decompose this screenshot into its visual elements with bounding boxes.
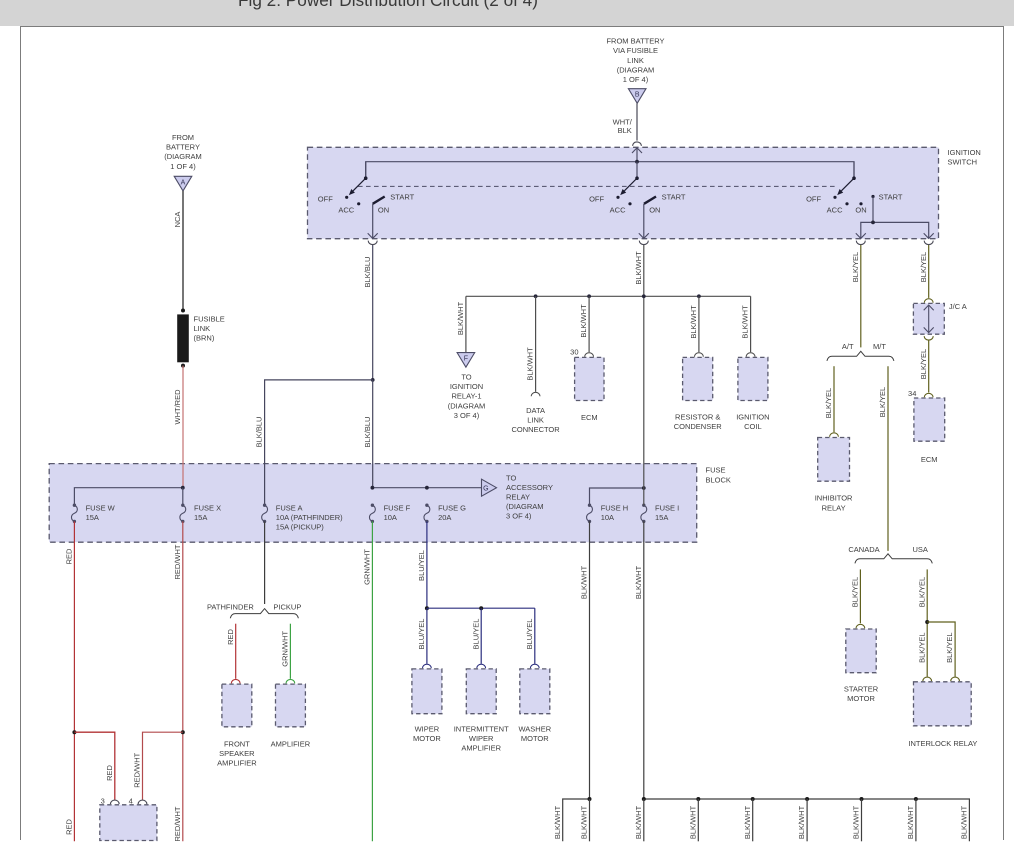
fuse FUSE A 10A (PATHFINDER) bbox=[262, 503, 343, 531]
connector arc at ignition switch input bbox=[633, 142, 642, 146]
connector triangle F bbox=[457, 353, 475, 368]
bottom drop wire BLK/WHT bbox=[643, 799, 645, 841]
svg-text:GRN/WHT: GRN/WHT bbox=[363, 549, 372, 585]
wire to intermittent wiper amplifier bbox=[480, 608, 482, 664]
junction dot bottom bus bbox=[860, 797, 864, 801]
junction dot at FUSE F bbox=[371, 486, 375, 490]
svg-text:BLK/YEL: BLK/YEL bbox=[824, 388, 833, 418]
svg-text:RED/WHT: RED/WHT bbox=[133, 752, 142, 787]
switch pivot bbox=[852, 176, 856, 180]
connector arc at wiper motor bbox=[423, 664, 432, 668]
junction dot bottom bus bbox=[696, 797, 700, 801]
bottom drop wire BLK/WHT bbox=[806, 799, 808, 841]
svg-text:BLU/YEL: BLU/YEL bbox=[417, 550, 426, 581]
svg-text:FUSE H: FUSE H bbox=[601, 503, 629, 512]
svg-text:PATHFINDER: PATHFINDER bbox=[207, 603, 254, 612]
svg-text:15A (PICKUP): 15A (PICKUP) bbox=[276, 523, 324, 532]
svg-text:BLK/BLU: BLK/BLU bbox=[363, 417, 372, 448]
svg-text:BLK/WHT: BLK/WHT bbox=[580, 805, 589, 839]
wire FUSE X drop bbox=[182, 488, 184, 506]
wire BLK/YEL to inhibitor relay bbox=[833, 366, 835, 432]
svg-text:(DIAGRAM: (DIAGRAM bbox=[617, 65, 655, 74]
svg-text:BLK/YEL: BLK/YEL bbox=[917, 632, 926, 662]
svg-text:15A: 15A bbox=[655, 513, 668, 522]
fuse FUSE I 15A bbox=[641, 503, 679, 523]
wire RED/WHT from FUSE X bbox=[182, 521, 184, 841]
wire RED/WHT branch to pin 4 bbox=[143, 732, 183, 800]
washer motor box bbox=[520, 669, 550, 714]
junction dot BLK/BLU split bbox=[371, 378, 375, 382]
junction connector J/C A box bbox=[913, 303, 944, 334]
bottom component box (clipped) bbox=[100, 805, 157, 841]
svg-text:A/T: A/T bbox=[842, 342, 854, 351]
junction dot bottom bus bbox=[751, 797, 755, 801]
connector arc at starter motor bbox=[856, 624, 865, 628]
wire GRN/WHT to amplifier bbox=[289, 624, 291, 679]
svg-text:COIL: COIL bbox=[744, 422, 762, 431]
svg-text:BLK: BLK bbox=[618, 126, 632, 135]
bottom bus right segment bbox=[644, 799, 970, 841]
svg-text:FUSE W: FUSE W bbox=[86, 503, 116, 512]
svg-text:RELAY: RELAY bbox=[506, 493, 530, 502]
bottom drop wire BLK/WHT bbox=[861, 799, 863, 841]
svg-text:BLK/WHT: BLK/WHT bbox=[553, 805, 562, 839]
wire branch to resistor and condenser bbox=[698, 296, 700, 352]
svg-text:BLK/WHT: BLK/WHT bbox=[634, 805, 643, 839]
connector arc at J/C A input bbox=[924, 299, 933, 303]
svg-text:MOTOR: MOTOR bbox=[847, 694, 875, 703]
brace splitting CANADA / USA bbox=[855, 554, 932, 564]
fuse block left bus bbox=[74, 488, 182, 506]
svg-text:SWITCH: SWITCH bbox=[948, 158, 978, 167]
junction dot bottom bus bbox=[805, 797, 809, 801]
switch lever arrow (pointing to OFF) bbox=[353, 178, 366, 191]
switch pivot bbox=[364, 176, 368, 180]
fuse block box bbox=[49, 464, 697, 543]
svg-text:LINK: LINK bbox=[627, 56, 644, 65]
wire branch to ignition coil bbox=[750, 296, 752, 352]
svg-text:BLK/WHT: BLK/WHT bbox=[580, 565, 589, 599]
svg-text:(BRN): (BRN) bbox=[194, 334, 215, 343]
junction dot at FUSE G bbox=[425, 486, 429, 490]
svg-text:10A: 10A bbox=[384, 513, 397, 522]
svg-text:BLK/YEL: BLK/YEL bbox=[919, 252, 928, 282]
svg-text:BLK/WHT: BLK/WHT bbox=[852, 805, 861, 839]
svg-text:BLK/WHT: BLK/WHT bbox=[634, 565, 643, 599]
svg-text:OFF: OFF bbox=[318, 194, 333, 203]
connector arc interlock relay right pin bbox=[951, 677, 960, 681]
junction dots on distribution bus bbox=[534, 294, 538, 298]
svg-text:34: 34 bbox=[908, 389, 916, 398]
fuse FUSE X 15A bbox=[180, 503, 221, 523]
ECM box (pin 34) bbox=[914, 398, 945, 441]
fuse FUSE G 20A bbox=[424, 503, 466, 523]
connector arc at data link connector bbox=[531, 392, 540, 396]
terminal ACC bbox=[845, 202, 848, 205]
junction dot left bus feed bbox=[181, 486, 185, 490]
svg-text:MOTOR: MOTOR bbox=[521, 734, 549, 743]
wire from input to internal bus bbox=[636, 148, 638, 162]
wire WHT/BLK from triangle B to ignition switch bbox=[636, 103, 638, 140]
svg-text:FUSE: FUSE bbox=[706, 466, 726, 475]
wire BLK/YEL USA branch bbox=[926, 569, 928, 676]
connector arc at ECM pin 30 bbox=[585, 353, 594, 357]
ignition switch wafer: feed drop to pivot bbox=[365, 162, 367, 179]
mechanical linkage dashed line bbox=[358, 185, 835, 187]
svg-text:FROM: FROM bbox=[172, 133, 194, 142]
svg-text:ECM: ECM bbox=[921, 455, 938, 464]
svg-text:FUSE A: FUSE A bbox=[276, 503, 303, 512]
svg-text:BLK/YEL: BLK/YEL bbox=[945, 632, 954, 662]
svg-text:LINK: LINK bbox=[194, 324, 211, 333]
svg-text:CONDENSER: CONDENSER bbox=[674, 422, 723, 431]
svg-text:PICKUP: PICKUP bbox=[273, 603, 301, 612]
svg-text:WASHER: WASHER bbox=[518, 724, 551, 733]
connector arc at ECM pin 34 bbox=[924, 393, 933, 397]
wire BLK/YEL from ignition (start rail left) to A/T-M/T brace bbox=[860, 245, 862, 347]
svg-text:(DIAGRAM: (DIAGRAM bbox=[164, 152, 202, 161]
svg-text:ACCESSORY: ACCESSORY bbox=[506, 483, 553, 492]
intermittent wiper amplifier box bbox=[466, 669, 496, 714]
svg-text:M/T: M/T bbox=[873, 342, 886, 351]
svg-text:WHT/: WHT/ bbox=[613, 118, 633, 127]
bottom drop wire BLK/WHT bbox=[752, 799, 754, 841]
terminal OFF bbox=[616, 196, 619, 199]
svg-text:RED: RED bbox=[65, 819, 74, 835]
wire BLK/WHT from ignition middle output down to fuse block bbox=[643, 245, 645, 505]
right wafer terminal ON dot bbox=[859, 202, 862, 205]
svg-text:BLK/YEL: BLK/YEL bbox=[917, 577, 926, 607]
wire RED to front speaker amplifier bbox=[235, 624, 237, 679]
svg-text:RED: RED bbox=[226, 629, 235, 645]
wire BLK/BLU from ignition switch left output bbox=[372, 245, 374, 380]
svg-text:START: START bbox=[879, 192, 903, 201]
ECM box (pin 30) bbox=[575, 357, 604, 400]
svg-text:(DIAGRAM: (DIAGRAM bbox=[448, 401, 486, 410]
connector arc at inhibitor relay bbox=[830, 433, 839, 437]
junction dot RED bbox=[72, 730, 76, 734]
wire GRN/WHT from FUSE F to bottom bbox=[371, 521, 373, 841]
wire BLK/WHT from FUSE I to bottom bus bbox=[643, 521, 645, 799]
svg-text:1 OF 4): 1 OF 4) bbox=[170, 162, 196, 171]
junction dot bottom bus bbox=[914, 797, 918, 801]
svg-text:IGNITION: IGNITION bbox=[736, 412, 769, 421]
bottom drop wire BLK/WHT bbox=[915, 799, 917, 841]
svg-text:WIPER: WIPER bbox=[415, 724, 440, 733]
wire to wiper motor bbox=[426, 608, 428, 664]
svg-text:ACC: ACC bbox=[610, 205, 626, 214]
bottom drop wire BLK/WHT bbox=[697, 799, 699, 841]
wire START to output rail bbox=[872, 197, 874, 223]
right wafer terminal START dot bbox=[871, 195, 874, 198]
svg-text:B: B bbox=[635, 92, 640, 99]
svg-text:RED/WHT: RED/WHT bbox=[173, 806, 182, 841]
connector arc at resistor and condenser bbox=[695, 353, 704, 357]
svg-text:BLK/WHT: BLK/WHT bbox=[526, 347, 535, 381]
wire branch to ECM pin 30 bbox=[588, 296, 590, 352]
svg-text:FROM BATTERY: FROM BATTERY bbox=[606, 37, 664, 46]
svg-text:TO: TO bbox=[461, 373, 471, 382]
ignition switch wafer: feed drop to pivot bbox=[636, 162, 638, 179]
output wire middle wafer (ON) to box edge bbox=[643, 204, 645, 239]
svg-text:F: F bbox=[464, 356, 468, 363]
connector arc at ignition coil bbox=[746, 353, 755, 357]
svg-text:BLK/YEL: BLK/YEL bbox=[878, 387, 887, 417]
svg-text:G: G bbox=[483, 485, 488, 492]
wire BLU/YEL from FUSE G bbox=[426, 521, 428, 608]
starter motor box bbox=[846, 629, 876, 673]
wire RED branch to pin 3 bbox=[74, 732, 114, 800]
junction dot RED/WHT bbox=[181, 730, 185, 734]
connector arc interlock relay left pin bbox=[923, 677, 932, 681]
svg-text:CANADA: CANADA bbox=[848, 545, 879, 554]
svg-text:3: 3 bbox=[101, 796, 105, 805]
junction dot right bus feed bbox=[642, 486, 646, 490]
svg-text:BLK/WHT: BLK/WHT bbox=[689, 305, 698, 339]
junction dot on bus at feed bbox=[635, 160, 639, 164]
fuse FUSE F 10A bbox=[369, 503, 410, 523]
svg-text:INTERLOCK RELAY: INTERLOCK RELAY bbox=[908, 739, 977, 748]
svg-text:BLU/YEL: BLU/YEL bbox=[471, 619, 480, 650]
switch lever arrow (pointing to OFF) bbox=[624, 178, 637, 191]
svg-text:STARTER: STARTER bbox=[844, 684, 879, 693]
svg-text:CONNECTOR: CONNECTOR bbox=[511, 425, 560, 434]
svg-text:INHIBITOR: INHIBITOR bbox=[815, 494, 853, 503]
inhibitor relay box bbox=[818, 438, 850, 482]
terminal OFF bbox=[833, 196, 836, 199]
junction dot USA split bbox=[925, 620, 929, 624]
svg-text:30: 30 bbox=[570, 348, 578, 357]
svg-text:RELAY-1: RELAY-1 bbox=[451, 392, 481, 401]
front speaker amplifier box bbox=[222, 684, 252, 727]
wire to interlock relay right pin bbox=[927, 622, 955, 677]
terminal ACC bbox=[628, 202, 631, 205]
wire to washer motor bbox=[534, 608, 536, 664]
ON-START contact lever (closed) bbox=[373, 197, 385, 204]
ignition coil box bbox=[738, 357, 768, 400]
svg-text:USA: USA bbox=[912, 545, 927, 554]
svg-text:LINK: LINK bbox=[527, 416, 544, 425]
svg-text:BLK/WHT: BLK/WHT bbox=[579, 304, 588, 338]
svg-text:RED/WHT: RED/WHT bbox=[173, 544, 182, 579]
fusible link (BRN) bbox=[177, 314, 189, 362]
junction dot above fusible link bbox=[181, 309, 185, 313]
svg-text:AMPLIFIER: AMPLIFIER bbox=[217, 759, 257, 768]
svg-text:(DIAGRAM: (DIAGRAM bbox=[506, 502, 544, 511]
amplifier box bbox=[276, 684, 306, 727]
connector triangle G (to accessory relay) bbox=[482, 479, 497, 496]
svg-text:ON: ON bbox=[855, 206, 866, 215]
connector triangle A bbox=[174, 176, 192, 191]
svg-text:IGNITION: IGNITION bbox=[948, 148, 981, 157]
wire BLK/YEL to starter motor bbox=[859, 569, 861, 623]
svg-text:BLK/WHT: BLK/WHT bbox=[741, 305, 750, 339]
top toolbar band bbox=[0, 0, 1014, 26]
svg-text:FRONT: FRONT bbox=[224, 739, 250, 748]
svg-text:SPEAKER: SPEAKER bbox=[219, 749, 255, 758]
fuse block right bus bbox=[590, 488, 644, 505]
svg-text:BLK/YEL: BLK/YEL bbox=[851, 577, 860, 607]
interlock relay box bbox=[914, 682, 972, 726]
BLU/YEL distribution line bbox=[427, 607, 535, 609]
fuse FUSE W 15A bbox=[71, 503, 115, 523]
wire RED from FUSE W bbox=[73, 521, 75, 841]
connector arc at intermittent wiper amplifier bbox=[477, 664, 486, 668]
fuse FUSE H 10A bbox=[587, 503, 629, 523]
connector arc at front speaker amplifier bbox=[231, 679, 240, 683]
connector arc pin 3 bbox=[110, 800, 119, 804]
brace splitting PATHFINDER / PICKUP bbox=[230, 609, 298, 619]
terminal OFF bbox=[345, 196, 348, 199]
svg-text:RED: RED bbox=[105, 765, 114, 781]
brace splitting A/T / M/T bbox=[827, 351, 894, 361]
wire branch to ignition relay triangle F bbox=[465, 296, 467, 352]
BLK/WHT distribution bus bbox=[466, 295, 751, 297]
fuse block mid bus to accessory relay bbox=[372, 487, 481, 489]
svg-text:START: START bbox=[390, 192, 414, 201]
output wire left wafer (ON) to box edge bbox=[372, 204, 374, 239]
wire BLK/YEL M/T branch down to CANADA/USA brace bbox=[887, 366, 889, 551]
svg-text:Fig 2: Power Distribution Circ: Fig 2: Power Distribution Circuit (2 of … bbox=[238, 0, 538, 10]
svg-text:BLK/BLU: BLK/BLU bbox=[363, 257, 372, 288]
connector arc below J/C A bbox=[924, 336, 933, 340]
wire branch to data link connector bbox=[535, 296, 537, 392]
svg-text:FUSE F: FUSE F bbox=[384, 503, 411, 512]
svg-text:DATA: DATA bbox=[526, 406, 545, 415]
svg-text:FUSE G: FUSE G bbox=[438, 503, 466, 512]
svg-text:A: A bbox=[181, 179, 186, 186]
output rail of right wafer bbox=[861, 222, 929, 238]
wire WHT/RED from fusible link to fuse block bbox=[182, 366, 184, 488]
svg-text:ON: ON bbox=[649, 206, 660, 215]
svg-text:BLU/YEL: BLU/YEL bbox=[525, 619, 534, 650]
svg-text:BLK/BLU: BLK/BLU bbox=[255, 417, 264, 448]
svg-text:BATTERY: BATTERY bbox=[166, 143, 200, 152]
svg-text:BLK/WHT: BLK/WHT bbox=[797, 805, 806, 839]
wire BLK/BLU branch to FUSE A bbox=[265, 380, 373, 505]
diagram viewport frame bbox=[20, 26, 22, 840]
connector arc at washer motor bbox=[530, 664, 539, 668]
svg-text:RED: RED bbox=[65, 548, 74, 564]
connector triangle B bbox=[628, 89, 646, 104]
wire NCA from triangle A to fusible link bbox=[182, 191, 184, 311]
svg-text:IGNITION: IGNITION bbox=[450, 382, 483, 391]
svg-text:BLK/WHT: BLK/WHT bbox=[960, 805, 969, 839]
svg-text:AMPLIFIER: AMPLIFIER bbox=[461, 744, 501, 753]
svg-text:BLK/WHT: BLK/WHT bbox=[906, 805, 915, 839]
svg-text:BLU/YEL: BLU/YEL bbox=[417, 619, 426, 650]
svg-text:MOTOR: MOTOR bbox=[413, 734, 441, 743]
svg-text:15A: 15A bbox=[86, 513, 99, 522]
svg-text:OFF: OFF bbox=[589, 194, 604, 203]
svg-text:10A: 10A bbox=[601, 513, 614, 522]
ignition switch box bbox=[308, 147, 939, 238]
svg-text:NCA: NCA bbox=[173, 212, 182, 228]
junction dot BLU/YEL at wiper motor bbox=[425, 606, 429, 610]
svg-text:RESISTOR &: RESISTOR & bbox=[675, 412, 720, 421]
svg-text:GRN/WHT: GRN/WHT bbox=[281, 630, 290, 666]
ignition switch wafer: feed drop to pivot bbox=[853, 162, 855, 179]
switch lever arrow (pointing to OFF) bbox=[841, 178, 854, 191]
ON-START contact lever (closed) bbox=[644, 197, 656, 204]
svg-text:1 OF 4): 1 OF 4) bbox=[623, 75, 649, 84]
junction dot below fusible link bbox=[181, 364, 185, 368]
arrow into ignition switch (pointing up) bbox=[632, 148, 642, 153]
terminal ACC bbox=[357, 202, 360, 205]
svg-text:3 OF 4): 3 OF 4) bbox=[454, 411, 480, 420]
svg-text:ECM: ECM bbox=[581, 413, 598, 422]
svg-text:BLK/WHT: BLK/WHT bbox=[743, 805, 752, 839]
bottom drop at 589 bbox=[589, 799, 591, 841]
ignition switch internal bus bbox=[366, 162, 854, 179]
svg-text:20A: 20A bbox=[438, 513, 451, 522]
resistor and condenser box bbox=[683, 357, 713, 400]
switch pivot bbox=[635, 176, 639, 180]
svg-text:WIPER: WIPER bbox=[469, 734, 494, 743]
svg-text:4: 4 bbox=[129, 796, 133, 805]
svg-text:TO: TO bbox=[506, 473, 516, 482]
svg-text:BLOCK: BLOCK bbox=[706, 475, 731, 484]
junction dot bottom bus bbox=[642, 797, 646, 801]
svg-text:START: START bbox=[662, 192, 686, 201]
junction dot BLU/YEL at intermittent wiper amplifier bbox=[479, 606, 483, 610]
wire BLK/WHT from FUSE H to bottom bus bbox=[589, 521, 591, 799]
junction dot bottom left bus bbox=[588, 797, 592, 801]
svg-text:RELAY: RELAY bbox=[822, 503, 846, 512]
wire BLK/YEL from ignition right output to J/C A bbox=[928, 245, 930, 298]
svg-text:FUSE X: FUSE X bbox=[194, 503, 221, 512]
svg-text:INTERMITTENT: INTERMITTENT bbox=[454, 724, 509, 733]
svg-text:AMPLIFIER: AMPLIFIER bbox=[271, 740, 311, 749]
svg-text:WHT/RED: WHT/RED bbox=[173, 389, 182, 425]
svg-text:15A: 15A bbox=[194, 513, 207, 522]
svg-text:BLK/WHT: BLK/WHT bbox=[688, 805, 697, 839]
exit arrows and connector arcs at ignition outputs bbox=[368, 233, 378, 238]
J/C A internal through-line with arrows bbox=[928, 305, 930, 333]
wiper motor box bbox=[412, 669, 442, 714]
wire BLK/BLU to FUSE F bbox=[372, 380, 374, 488]
svg-text:BLK/YEL: BLK/YEL bbox=[919, 349, 928, 379]
junction dot on rail bbox=[871, 221, 875, 225]
connector arc at amplifier bbox=[286, 679, 295, 683]
svg-text:BLK/WHT: BLK/WHT bbox=[634, 251, 643, 285]
svg-text:ON: ON bbox=[378, 206, 389, 215]
svg-text:3 OF 4): 3 OF 4) bbox=[506, 512, 532, 521]
svg-text:FUSIBLE: FUSIBLE bbox=[194, 315, 225, 324]
svg-text:ACC: ACC bbox=[338, 205, 354, 214]
wire BLK/YEL from J/C A to ECM pin 34 bbox=[928, 341, 930, 393]
svg-text:ACC: ACC bbox=[827, 205, 843, 214]
svg-text:FUSE I: FUSE I bbox=[655, 503, 679, 512]
svg-text:BLK/WHT: BLK/WHT bbox=[456, 301, 465, 335]
svg-text:VIA FUSIBLE: VIA FUSIBLE bbox=[613, 46, 658, 55]
connector arc pin 4 bbox=[138, 800, 147, 804]
svg-text:10A (PATHFINDER): 10A (PATHFINDER) bbox=[276, 513, 343, 522]
svg-text:BLK/YEL: BLK/YEL bbox=[851, 252, 860, 282]
bottom bus left segment bbox=[563, 799, 590, 841]
svg-text:J/C A: J/C A bbox=[949, 302, 967, 311]
svg-text:OFF: OFF bbox=[806, 194, 821, 203]
wire from FUSE A to brace bbox=[264, 521, 266, 604]
